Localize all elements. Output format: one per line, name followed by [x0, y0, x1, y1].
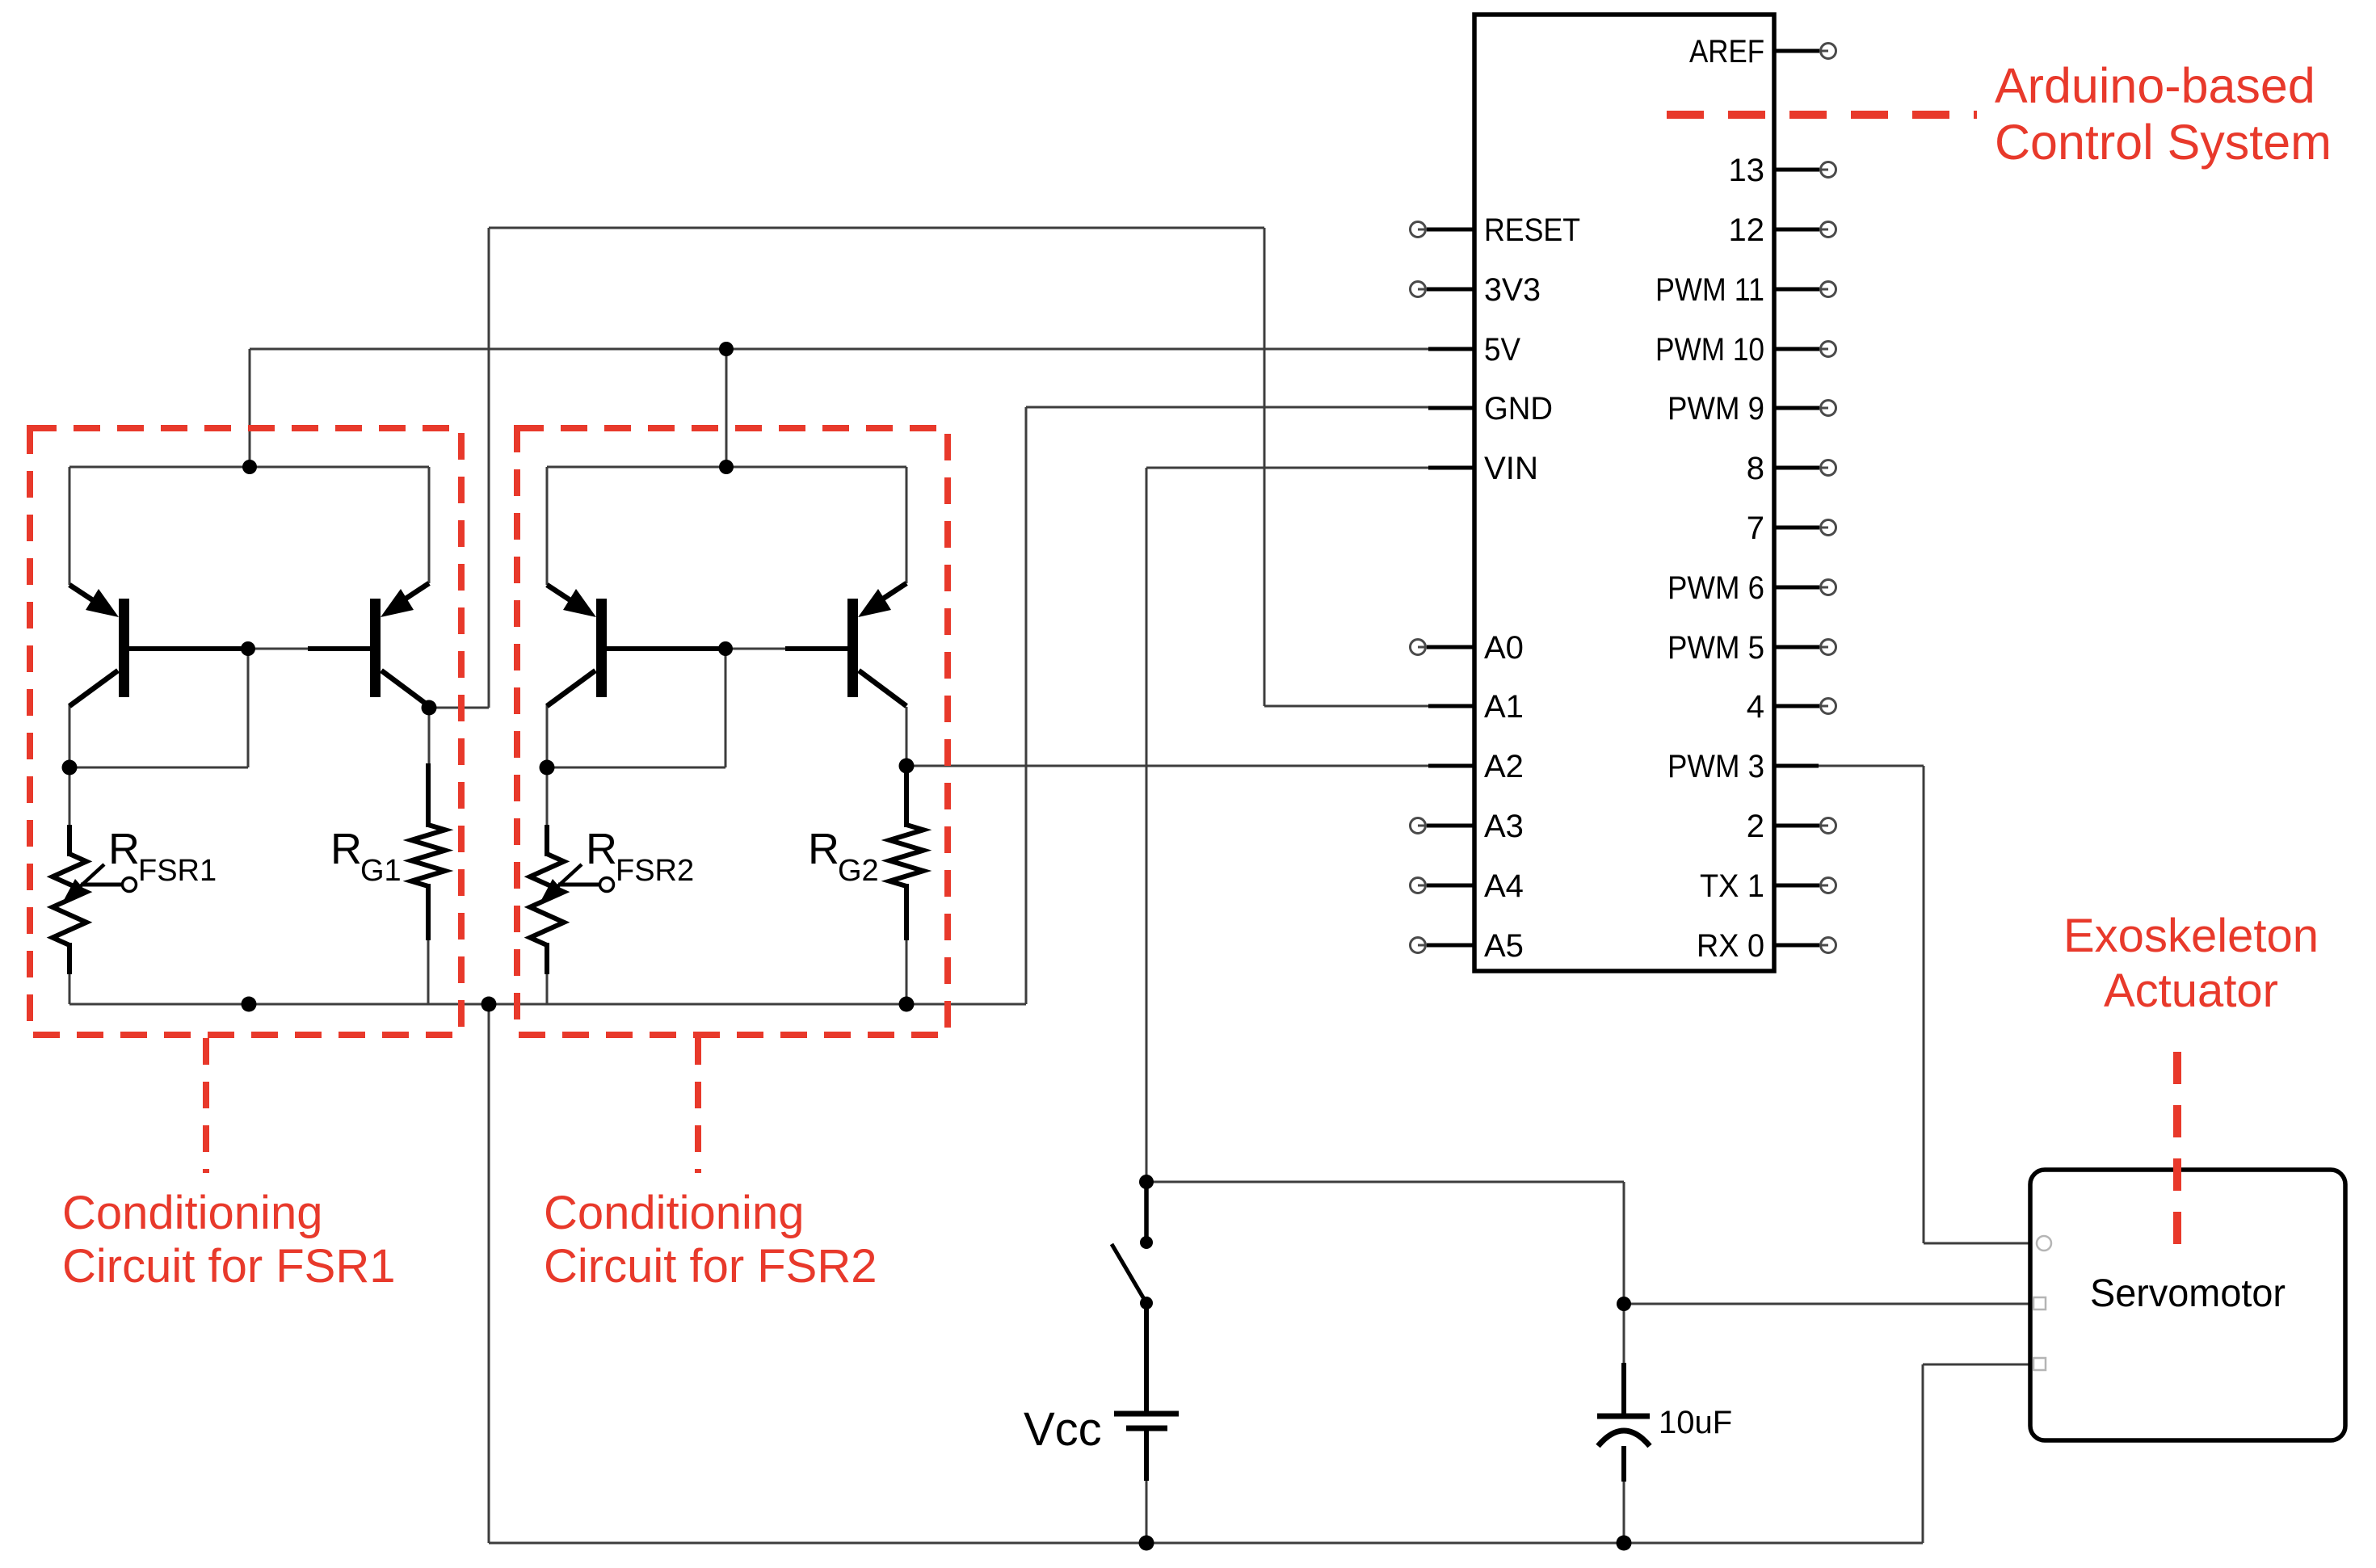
- svg-text:A5: A5: [1484, 928, 1524, 964]
- svg-text:PWM 6: PWM 6: [1667, 570, 1764, 606]
- svg-text:Conditioning: Conditioning: [544, 1187, 804, 1239]
- svg-text:12: 12: [1729, 212, 1765, 248]
- svg-text:PWM 11: PWM 11: [1655, 272, 1764, 308]
- svg-text:Vcc: Vcc: [1024, 1403, 1102, 1456]
- svg-text:PWM 5: PWM 5: [1667, 630, 1764, 666]
- svg-text:Circuit for FSR2: Circuit for FSR2: [544, 1240, 877, 1293]
- svg-text:GND: GND: [1484, 391, 1553, 427]
- svg-text:A3: A3: [1484, 809, 1524, 844]
- svg-text:7: 7: [1747, 511, 1764, 546]
- svg-text:VIN: VIN: [1484, 451, 1538, 486]
- svg-text:R: R: [108, 825, 140, 873]
- svg-text:2: 2: [1747, 809, 1764, 844]
- svg-text:FSR2: FSR2: [616, 854, 694, 888]
- svg-text:RX 0: RX 0: [1697, 928, 1764, 964]
- svg-text:Control System: Control System: [1995, 115, 2332, 170]
- svg-text:Actuator: Actuator: [2104, 965, 2278, 1017]
- svg-text:G2: G2: [838, 854, 879, 888]
- svg-text:R: R: [330, 825, 362, 873]
- svg-text:Arduino-based: Arduino-based: [1995, 58, 2315, 113]
- svg-text:Servomotor: Servomotor: [2090, 1272, 2286, 1315]
- svg-text:A4: A4: [1484, 868, 1524, 904]
- svg-text:A1: A1: [1484, 689, 1524, 725]
- svg-text:8: 8: [1747, 451, 1764, 486]
- svg-text:PWM 9: PWM 9: [1667, 391, 1764, 427]
- svg-text:G1: G1: [360, 854, 402, 888]
- svg-text:R: R: [586, 825, 617, 873]
- svg-text:PWM 10: PWM 10: [1655, 332, 1764, 368]
- svg-text:4: 4: [1747, 689, 1764, 725]
- svg-text:13: 13: [1729, 153, 1765, 188]
- svg-text:A2: A2: [1484, 749, 1524, 784]
- svg-text:A0: A0: [1484, 630, 1524, 666]
- svg-text:Circuit for FSR1: Circuit for FSR1: [62, 1240, 396, 1293]
- svg-text:TX 1: TX 1: [1700, 868, 1764, 904]
- svg-text:3V3: 3V3: [1484, 272, 1541, 308]
- svg-text:RESET: RESET: [1484, 212, 1580, 248]
- svg-text:AREF: AREF: [1689, 34, 1764, 69]
- svg-text:FSR1: FSR1: [138, 854, 217, 888]
- svg-text:Exoskeleton: Exoskeleton: [2063, 910, 2319, 962]
- svg-text:Conditioning: Conditioning: [62, 1187, 322, 1239]
- svg-text:PWM 3: PWM 3: [1667, 749, 1764, 784]
- svg-text:10uF: 10uF: [1659, 1405, 1732, 1440]
- svg-text:R: R: [808, 825, 839, 873]
- svg-text:5V: 5V: [1484, 332, 1520, 368]
